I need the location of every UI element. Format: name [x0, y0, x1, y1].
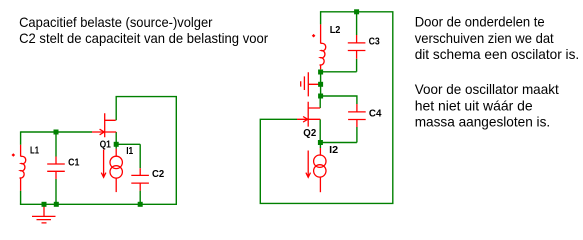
svg-text:het niet uit wáár de: het niet uit wáár de — [415, 98, 533, 114]
svg-text:Q2: Q2 — [303, 127, 316, 139]
svg-text:I2: I2 — [329, 144, 338, 156]
svg-text:C3: C3 — [369, 36, 380, 48]
svg-text:Q1: Q1 — [100, 139, 111, 151]
svg-text:C1: C1 — [68, 157, 79, 169]
svg-text:L2: L2 — [330, 24, 341, 36]
svg-text:verschuiven zien we dat: verschuiven zien we dat — [415, 30, 554, 46]
svg-text:L1: L1 — [30, 145, 39, 157]
svg-text:dit schema een oscilator is.: dit schema een oscilator is. — [415, 46, 580, 62]
svg-text:C4: C4 — [369, 108, 382, 120]
svg-text:C2: C2 — [152, 168, 164, 180]
svg-text:I1: I1 — [126, 145, 133, 157]
svg-text:Voor de oscillator maakt: Voor de oscillator maakt — [415, 81, 559, 97]
svg-text:C2 stelt de capaciteit van de: C2 stelt de capaciteit van de belasting … — [19, 30, 268, 46]
svg-text:massa aangesloten is.: massa aangesloten is. — [415, 113, 551, 129]
svg-text:Capacitief belaste (source-)vo: Capacitief belaste (source-)volger — [19, 14, 213, 30]
svg-text:Door de onderdelen te: Door de onderdelen te — [415, 14, 545, 30]
